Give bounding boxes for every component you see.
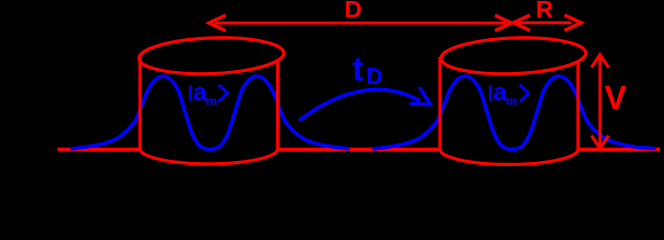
right cavity C2 left wall <box>438 57 441 151</box>
V arrow top head <box>592 55 609 68</box>
t_D flight arrow arc <box>299 89 420 120</box>
left cavity C1 left wall <box>138 57 141 151</box>
D arrow right head <box>495 15 512 30</box>
svg-text:V: V <box>605 79 627 116</box>
left ket bar <box>189 86 192 101</box>
left cavity C1 top rim ellipse <box>138 35 284 76</box>
D distance arrow shaft <box>215 22 506 25</box>
right cavity C2 top rim ellipse <box>440 35 586 76</box>
left cavity C1 bottom arc <box>140 149 278 163</box>
svg-text:m: m <box>206 94 218 109</box>
right cavity C2 bottom arc <box>440 149 578 164</box>
svg-text:R: R <box>536 0 553 24</box>
right cavity C2 right wall <box>576 60 579 151</box>
R arrow left head <box>514 15 531 30</box>
V arrow bottom head <box>592 136 609 149</box>
V mode amplitude arrow shaft <box>599 58 602 146</box>
svg-text:m: m <box>506 94 518 109</box>
left cavity C1 right wall <box>276 60 279 151</box>
baseline left segment <box>58 148 141 152</box>
left ket angle bracket <box>219 85 228 102</box>
R radius arrow shaft <box>517 21 571 24</box>
right ket bar <box>489 86 492 101</box>
svg-text:D: D <box>366 63 383 89</box>
left cavity mode wavepacket <box>72 76 348 149</box>
baseline middle segment <box>278 148 440 152</box>
D arrow left head <box>209 15 226 30</box>
R arrow right head <box>565 15 582 30</box>
svg-text:t: t <box>352 51 363 89</box>
baseline right segment <box>578 148 660 152</box>
right ket angle bracket <box>520 85 529 102</box>
t_D arrow head <box>411 89 430 105</box>
svg-text:D: D <box>345 0 362 24</box>
right cavity mode wavepacket <box>374 76 654 149</box>
